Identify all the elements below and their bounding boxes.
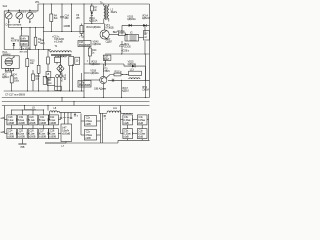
wire L11 left bbox=[100, 106, 108, 114]
lamp HL1 bbox=[5, 11, 12, 23]
diode VD11 bbox=[89, 12, 98, 23]
big box module A1 bbox=[61, 113, 72, 142]
capacitor at x61 bbox=[60, 113, 62, 118]
svg-text:а1В: а1В bbox=[1, 130, 6, 134]
resistor R21 bbox=[47, 57, 50, 64]
wire stub col 11.7 bbox=[11, 110, 13, 115]
capacitor at x71 bbox=[70, 113, 72, 118]
capacitor C14 bbox=[60, 4, 70, 32]
diode VD15 bbox=[122, 24, 145, 35]
svg-text:х160В: х160В bbox=[18, 121, 25, 125]
wire y73 link bbox=[84, 72, 90, 74]
svg-text:х16В: х16В bbox=[85, 122, 91, 126]
transformer T2 bbox=[103, 4, 109, 24]
capacitor С26 bbox=[28, 129, 38, 139]
wire L8 left drop bbox=[49, 112, 51, 119]
svg-text:х160В: х160В bbox=[18, 135, 25, 139]
resistor R13 bbox=[109, 29, 128, 36]
buzzer HA1 box bbox=[2, 56, 20, 69]
resistor R12 bbox=[79, 24, 85, 39]
wire v right x145.5 low bbox=[145, 54, 147, 98]
transformer T3 coil bbox=[108, 78, 150, 81]
wire drop x71.5 bbox=[71, 4, 73, 32]
wire right grid verticals bbox=[120, 106, 122, 134]
wire rail y91 bbox=[4, 90, 84, 92]
svg-text:СДЕЛ: СДЕЛ bbox=[106, 40, 113, 44]
wire y64 bbox=[84, 63, 124, 65]
svg-text:КД522А: КД522А bbox=[142, 16, 150, 20]
wire left terminal bbox=[3, 11, 5, 50]
svg-text:VD12 КД510А: VD12 КД510А bbox=[86, 25, 101, 29]
svg-text:хит ххх: хит ххх bbox=[20, 51, 28, 54]
wire v x145 bbox=[144, 41, 146, 54]
capacitor С30 bbox=[85, 116, 97, 127]
wire y31.5 bbox=[44, 31, 85, 33]
wire drop x43.5 from bus bbox=[43, 4, 45, 50]
wire v x122 bbox=[121, 41, 123, 45]
capacitor C3x mark bbox=[104, 114, 106, 116]
wire right edge bbox=[149, 4, 151, 98]
capacitor box left bbox=[46, 72, 51, 78]
wire rail y97.5 bbox=[2, 97, 150, 99]
svg-text:VD7 VD8: VD7 VD8 bbox=[59, 72, 63, 82]
wire v x48 bbox=[47, 106, 49, 111]
svg-text:+Т1х: +Т1х bbox=[79, 35, 85, 39]
svg-text:КОППФ: КОППФ bbox=[11, 39, 19, 43]
svg-text:С7-С17 из з 680 В: С7-С17 из з 680 В bbox=[5, 93, 25, 97]
capacitor С27 bbox=[39, 129, 49, 139]
wire col5 to box links bbox=[58, 119, 61, 121]
svg-text:C1.1: C1.1 bbox=[21, 10, 27, 14]
wire v x48 bbox=[47, 50, 49, 58]
svg-text:КТ815: КТ815 bbox=[103, 69, 110, 73]
ground bbox=[18, 139, 26, 149]
svg-text:КД510: КД510 bbox=[21, 42, 28, 46]
svg-text:СООЕ: СООЕ bbox=[124, 45, 131, 49]
svg-text:а1В: а1В bbox=[1, 116, 6, 120]
wire v x81.5 bbox=[81, 73, 83, 91]
wire L11 right subrail bbox=[121, 113, 133, 115]
wire v x84 bbox=[83, 4, 85, 64]
box b3 bbox=[55, 86, 62, 90]
capacitor C6 bbox=[37, 49, 40, 91]
relay K1 box bbox=[20, 36, 29, 41]
svg-text:х1кВ: х1кВ bbox=[138, 135, 143, 139]
svg-text:х160В: х160В bbox=[29, 121, 36, 125]
svg-text:нал): нал) bbox=[40, 41, 45, 45]
svg-text:Ст изл сигнала: Ст изл сигнала bbox=[5, 23, 21, 27]
inductor L11 bbox=[107, 106, 121, 113]
capacitor С33 bbox=[123, 115, 133, 125]
svg-text:ВЕУ 1: ВЕУ 1 bbox=[113, 30, 120, 34]
capacitor С21 bbox=[39, 115, 49, 125]
svg-text:х160В: х160В bbox=[8, 135, 15, 139]
svg-text:х16В: х16В bbox=[85, 136, 91, 140]
svg-text:C1.2: C1.2 bbox=[32, 10, 38, 14]
svg-text:х160В: х160В bbox=[49, 135, 56, 139]
resistor R2 bbox=[34, 37, 37, 45]
wire stub col 43.6 bbox=[43, 110, 45, 115]
wire subrail y112.7 bbox=[60, 112, 82, 114]
inductor L7 bbox=[45, 143, 118, 148]
wire box right bbox=[139, 37, 144, 39]
resistor box M2 bbox=[75, 57, 80, 64]
svg-text:±5В: ±5В bbox=[20, 145, 25, 149]
module U3 box bbox=[144, 31, 150, 41]
svg-text:6800х600В: 6800х600В bbox=[79, 43, 91, 47]
wire rail y49.5 bbox=[4, 49, 51, 51]
resistor R7 bbox=[90, 4, 98, 13]
resistor R3 bbox=[26, 50, 35, 92]
wire stub colR 142.2 bbox=[141, 125, 143, 129]
svg-text:КД510А: КД510А bbox=[128, 62, 137, 66]
svg-text:х160В: х160В bbox=[39, 135, 46, 139]
svg-text:6800х500В: 6800х500В bbox=[79, 83, 91, 87]
capacitor link row2 x38 bbox=[37, 132, 39, 135]
svg-text:х600В: х600В bbox=[64, 24, 71, 28]
svg-text:30мГн: 30мГн bbox=[111, 10, 118, 14]
svg-text:д/ю: д/ю bbox=[76, 15, 80, 19]
wire left edge bottom bbox=[4, 106, 6, 134]
capacitor C17a box bbox=[78, 80, 91, 87]
relay K1.2 box bbox=[20, 42, 29, 47]
svg-text:R15 1к: R15 1к bbox=[115, 69, 123, 73]
lamp HL2 bbox=[16, 10, 27, 24]
svg-text:х160В: х160В bbox=[8, 121, 15, 125]
svg-text:КД510А: КД510А bbox=[93, 42, 102, 46]
wire mid group links bbox=[97, 120, 101, 122]
wire stub col 33 bbox=[32, 110, 34, 115]
wire y54 right bbox=[105, 53, 150, 55]
transformer T1 bbox=[48, 44, 71, 57]
svg-text:КТ361Б: КТ361Б bbox=[106, 26, 115, 30]
inductor L8 bbox=[50, 106, 60, 112]
capacitor С34 bbox=[137, 115, 147, 125]
wire rail y105.5 bbox=[2, 105, 150, 107]
svg-text:х100мВ: х100мВ bbox=[62, 132, 71, 136]
wire rail links bbox=[61, 98, 63, 102]
svg-text:х1кВ: х1кВ bbox=[124, 135, 129, 139]
svg-text:2П1: 2П1 bbox=[35, 0, 40, 4]
bridge rectifier diamond bbox=[57, 64, 64, 72]
vertical pair mid bbox=[100, 113, 102, 143]
capacitor С25 bbox=[18, 129, 28, 139]
capacitor link row1 x17 bbox=[16, 118, 18, 121]
inductor L10 bbox=[103, 55, 111, 67]
capacitor link row2 x49 bbox=[47, 132, 49, 135]
wire v x30 bbox=[29, 28, 31, 50]
capacitor link row1 x49 bbox=[47, 118, 49, 121]
svg-text:КД510А: КД510А bbox=[89, 19, 98, 23]
svg-text:SA1: SA1 bbox=[3, 4, 8, 8]
svg-text:БлГн: БлГн bbox=[21, 37, 27, 41]
svg-text:х160В: х160В bbox=[49, 121, 56, 125]
svg-text:ВЗ хх: ВЗ хх bbox=[63, 73, 67, 80]
wire y23.5 bbox=[84, 23, 104, 25]
resistor R15 bbox=[106, 69, 129, 78]
wire top bus bbox=[4, 4, 149, 11]
capacitor link row1 x28 bbox=[26, 118, 28, 121]
capacitor C15b bbox=[120, 45, 124, 55]
capacitor С22 bbox=[49, 115, 59, 125]
wire rail y101.5 bbox=[2, 101, 150, 103]
capacitor С19 bbox=[18, 115, 28, 125]
module U2 box bbox=[125, 31, 139, 42]
diode VD14 bbox=[143, 24, 146, 27]
terminal circles bbox=[56, 75, 59, 78]
wire stub col 53.6 bbox=[53, 125, 55, 129]
wire y25.5 diode row bbox=[122, 24, 150, 26]
svg-text:+С13 х: +С13 х bbox=[52, 35, 60, 39]
capacitor С28 bbox=[49, 129, 59, 139]
svg-text:х160В: х160В bbox=[29, 135, 36, 139]
svg-text:х 6,3 мВ: х 6,3 мВ bbox=[54, 40, 63, 44]
capacitor С18 bbox=[7, 115, 17, 125]
svg-text:КД522А: КД522А bbox=[127, 17, 136, 21]
wire v x21.5 low bbox=[21, 46, 23, 50]
transistor VT1 bbox=[100, 23, 114, 39]
capacitor С36 bbox=[137, 129, 147, 139]
box b2 bbox=[48, 78, 55, 86]
capacitor link row2 x17 bbox=[16, 132, 18, 135]
bottom right rail bbox=[118, 139, 150, 141]
diode VD15 bbox=[128, 60, 137, 68]
wire stub colR 127.7 bbox=[127, 125, 129, 129]
resistor R33 bbox=[32, 70, 41, 91]
svg-text:КД510: КД510 bbox=[122, 89, 129, 93]
inductor L13 box bbox=[129, 68, 142, 76]
svg-text:+СОВ х: +СОВ х bbox=[121, 49, 130, 53]
svg-text:х1кВ: х1кВ bbox=[138, 121, 143, 125]
capacitor С35 bbox=[123, 129, 133, 139]
svg-text:10В АДмкм: 10В АДмкм bbox=[94, 87, 106, 91]
terminal pins HA1 bbox=[6, 68, 9, 70]
wire v x21.5 bbox=[21, 28, 23, 37]
capacitor C33b mark bbox=[112, 79, 115, 82]
capacitor С20 bbox=[28, 115, 38, 125]
resistor R5 bbox=[10, 71, 20, 91]
resistor R4 bbox=[50, 4, 59, 32]
capacitor link row1 x38 bbox=[37, 118, 39, 121]
wire VT3 base bbox=[84, 79, 100, 81]
inductor L9 bbox=[12, 105, 44, 110]
resistor box M1 bbox=[69, 56, 74, 65]
wires central verticals bbox=[56, 62, 58, 64]
wire v x84 lower bbox=[83, 64, 85, 98]
wire stub col 22.4 bbox=[21, 110, 23, 115]
capacitor link row2 x28 bbox=[26, 132, 28, 135]
svg-text:х1кВ: х1кВ bbox=[124, 121, 129, 125]
relay box under T1 bbox=[54, 57, 60, 62]
lamp HL3 bbox=[27, 10, 38, 24]
box b1 bbox=[43, 76, 47, 84]
capacitor C16 box bbox=[78, 40, 91, 47]
junction dots rail97 bbox=[103, 97, 104, 98]
transistor VT3 bbox=[100, 64, 111, 98]
resistor R14 bbox=[88, 47, 97, 65]
svg-text:х160В: х160В bbox=[39, 121, 46, 125]
svg-text:КД510: КД510 bbox=[2, 75, 9, 79]
svg-text:КД510А: КД510А bbox=[90, 71, 99, 75]
wire v x121.5 bbox=[121, 80, 123, 97]
capacitor С31 bbox=[85, 130, 97, 141]
svg-text:КД510А: КД510А bbox=[91, 62, 100, 66]
capacitor С24 bbox=[7, 129, 17, 139]
diode VD1 bbox=[13, 43, 15, 50]
wire mid-left horizontal bbox=[9, 23, 44, 27]
